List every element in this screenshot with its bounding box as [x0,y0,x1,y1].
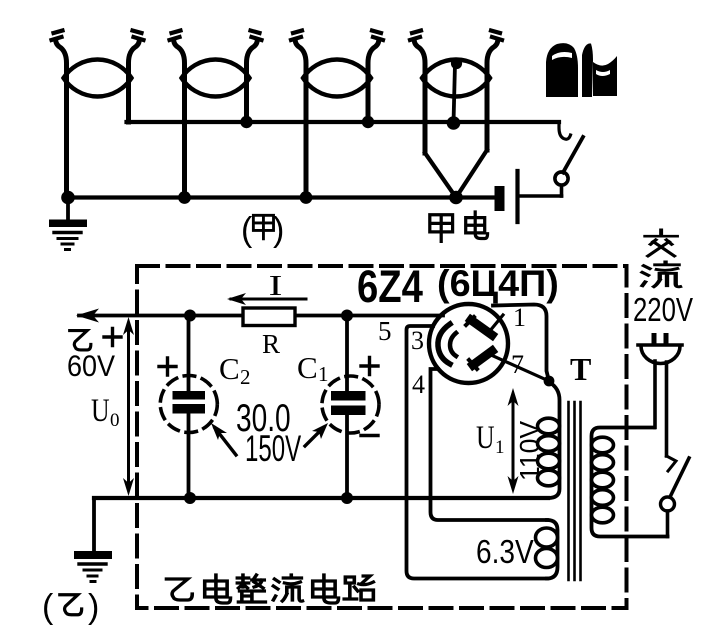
dashed enclosure box (乙电整流电路) [137,266,627,608]
svg-text:U: U [476,420,495,456]
svg-text:): ) [88,588,99,626]
label (甲) [241,211,284,249]
wire: bottom rail of rectifier [94,496,548,500]
transformer primary winding 220V [592,428,668,537]
tube filament V4 with center tap [410,31,502,198]
capacitor C2 (electrolytic, dashed circle) [159,316,217,499]
ground (B section) [74,551,112,582]
node dot V4 vee on bottom bus [449,191,463,205]
svg-text:(: ( [42,588,54,626]
transformer 6.3V winding [536,520,558,579]
voltage arrow U0 [123,317,134,496]
svg-text:5: 5 [378,316,392,346]
wire: pin1 loop to plate node [493,305,549,382]
wire: down to ground B [92,498,96,552]
voltage arrow U1 [508,388,519,494]
capacitor C1 (electrolytic, dashed circle) [322,316,379,499]
pointer arrow to C2 [211,423,236,455]
svg-text:2: 2 [240,365,251,389]
svg-text:(: ( [241,211,253,249]
svg-text:T: T [570,351,591,387]
label 交流 [642,230,680,287]
svg-text:I: I [269,270,283,301]
AC plug [638,333,682,456]
rectifier tube socket U1 [429,304,549,383]
node dot plate junction (pin 7) [544,376,555,387]
tube filament V2 [170,31,262,198]
node dot top wire / C2 [184,310,196,322]
svg-text:150V: 150V [245,428,301,470]
node dot V3 left on bottom bus [300,191,313,204]
switch B (mains switch) [661,456,690,537]
transformer core lines [569,402,581,580]
current arrow I [227,293,306,305]
node dot V4 tap on mid bus [447,116,461,130]
resistor R [243,308,295,326]
svg-text:R: R [262,329,280,359]
wire: heater mid bus [127,120,560,124]
transformer T: 110V secondary winding [538,382,560,498]
node dot V1 left / ground junction [61,191,75,205]
label U1 [476,420,505,458]
svg-text:U: U [91,393,110,429]
wire: pin4 to 6.3V winding top [431,369,548,520]
label (乙) [42,588,99,626]
label C1 [297,350,329,386]
svg-text:220V: 220V [633,292,693,329]
label 乙+ (output polarity) [70,329,121,350]
wire: pin3 to 6.3V winding bottom [407,326,548,579]
ground (A section) [49,198,87,250]
battery illustration blob (top right) [546,43,617,97]
node: V4 filament center tap dot [451,58,462,69]
svg-text:6Z4: 6Z4 [357,261,423,312]
svg-text:60V: 60V [67,350,115,384]
tube filament V1 [52,31,144,198]
node dot bottom / C2 [184,492,196,504]
svg-text:3: 3 [411,326,424,355]
label C2 [219,351,251,389]
pointer arrow to C1 [305,423,328,446]
svg-text:7: 7 [511,350,524,379]
switch A (filament switch) [555,122,583,196]
svg-text:6.3V: 6.3V [476,534,534,571]
svg-text:C: C [219,351,240,386]
battery A (甲电) [495,171,562,222]
node dot V2 right on mid bus [240,116,252,128]
output arrow (乙+ output) [76,309,443,323]
node dot bottom / C1 [341,492,353,504]
wire: heater bottom bus [67,195,495,199]
node dot V3 right on mid bus [362,116,374,128]
label 30.0 / 150V (capacitor value) [236,397,301,470]
svg-text:4: 4 [412,370,425,399]
svg-text:110V: 110V [513,420,545,481]
node dot V2 left on bottom bus [178,191,191,204]
svg-text:C: C [297,350,318,385]
svg-text:1: 1 [495,437,505,458]
tube filament V3 [291,31,383,198]
svg-text:1: 1 [318,362,329,386]
svg-text:0: 0 [110,410,120,431]
svg-text:(6Ц4П): (6Ц4П) [437,262,559,304]
svg-text:1: 1 [513,303,526,332]
label 乙电整流电路 [166,575,373,603]
label U0 [91,393,120,431]
node dot top wire / C1 [341,310,353,322]
label 甲电 (battery A label) [430,212,488,241]
